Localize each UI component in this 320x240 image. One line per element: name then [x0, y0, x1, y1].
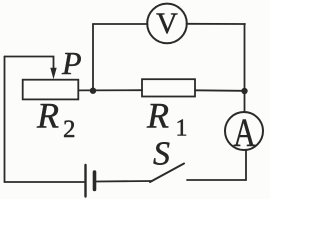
- wire: R1 right to node B: [195, 89, 242, 92]
- resistor R2 (rheostat) box: [23, 80, 79, 100]
- wire: top left horizontal from voltmeter: [93, 23, 148, 25]
- battery short plate (-): [93, 172, 97, 190]
- switch S lever: [150, 164, 184, 183]
- wire: R2 right through node A to R1 left: [79, 89, 143, 91]
- wire: wiper arm horizontal: [5, 57, 54, 71]
- svg-text:R: R: [146, 96, 169, 136]
- wire: node B up right vertical to top: [244, 24, 246, 91]
- wire: battery to switch: [97, 180, 153, 183]
- wire: top right horizontal to voltmeter: [187, 23, 246, 25]
- svg-text:S: S: [153, 136, 170, 173]
- resistor R1 box: [142, 79, 195, 96]
- wire: bottom right vertical to ammeter: [245, 150, 247, 180]
- wire: switch right contact to bottom right: [187, 179, 246, 181]
- ammeter A circle: [225, 112, 263, 150]
- battery long plate (+): [84, 165, 86, 197]
- svg-text:1: 1: [176, 116, 188, 142]
- node A junction dot: [90, 88, 96, 94]
- svg-text:A: A: [233, 110, 256, 155]
- node B junction dot: [241, 88, 247, 94]
- wiper arrowhead P: [50, 68, 56, 80]
- svg-text:P: P: [61, 45, 82, 81]
- svg-text:V: V: [156, 7, 178, 40]
- svg-text:2: 2: [63, 116, 76, 143]
- wire: vertical down to node A: [92, 24, 94, 91]
- svg-text:R: R: [36, 96, 59, 136]
- wire: ammeter top to node B: [244, 91, 246, 112]
- voltmeter V circle: [147, 4, 187, 44]
- wire: bottom left to battery: [5, 181, 85, 183]
- wire: left vertical: [4, 57, 6, 183]
